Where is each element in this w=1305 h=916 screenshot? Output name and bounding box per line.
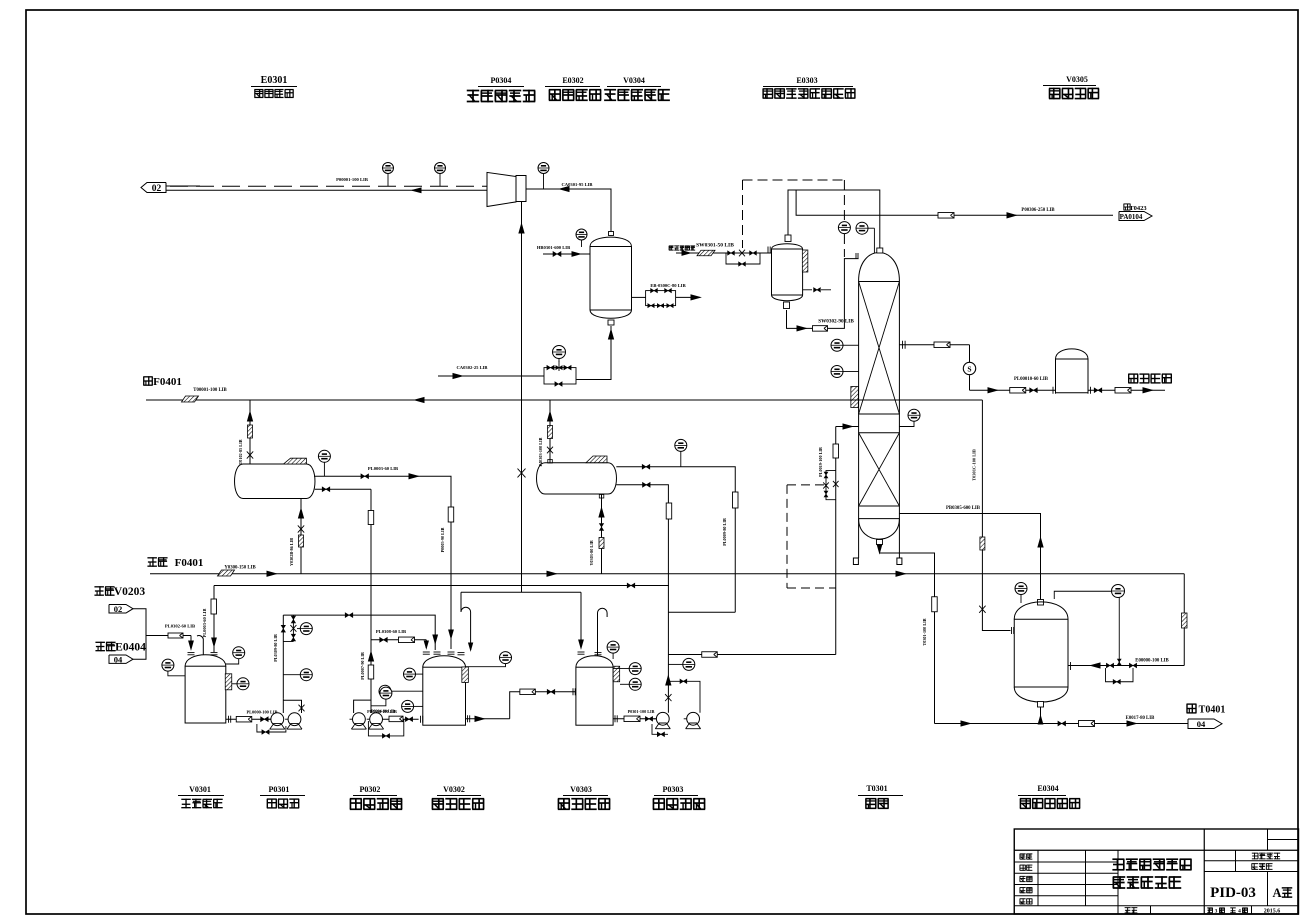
wire overhead offgas line to PA0104 [796,190,1113,215]
wire bus feed header y585.5 [214,585,669,587]
inlet flag 02 来自V0203 [94,586,114,596]
wire bus y400 down to drum1 [249,400,251,464]
pump P0302B [370,713,383,726]
svg-text:V0304: V0304 [623,76,645,85]
instrument PI on V0301 [162,659,174,671]
title block frame [1014,829,1298,914]
wire S down to V0305 line [969,375,971,390]
feed riser twin valve manifold [826,471,836,500]
svg-text:P0304: P0304 [491,76,512,85]
pump P0303B [687,712,700,725]
E0304 control valve station E00000-100 LIB [1068,665,1184,667]
svg-text:A: A [1272,886,1281,900]
instrument FIC bubble [553,346,566,359]
column packing X section lower [859,433,900,506]
wire FIC station outlet up to V0304 bottom nozzle [577,326,612,380]
svg-text:PID-03: PID-03 [1210,885,1256,901]
reboiler E0304 kettle [1038,600,1044,606]
instrument TI on column shell [831,366,843,378]
instrument LT on V0302 [402,700,414,712]
inlet flag 02 from battery limit [141,183,166,193]
wire column overhead vapour line to E0303 [788,190,880,252]
wire drum2 lower right line [616,485,668,713]
vessel V0301 crude anhydride tank [185,655,226,666]
svg-text:E0404: E0404 [115,642,146,654]
wire cooling water supply 自来水 SW0301-50 LIB [676,252,765,254]
svg-text:2015.6: 2015.6 [1264,909,1281,915]
svg-text:PL0000-100 LIB: PL0000-100 LIB [246,710,277,715]
wire vapour return E0304 to column PB0305-600 LIB [899,514,1040,601]
svg-text:Y0303-80 LIB: Y0303-80 LIB [589,540,594,565]
instrument LI on V0301 [237,678,249,690]
wire E0303 left nozzle stub [765,252,772,254]
svg-text:HB0301-600 LIB: HB0301-600 LIB [537,245,570,250]
instrument PI overhead [856,222,868,234]
svg-text:02: 02 [152,184,162,194]
svg-text:PL0309-80 LIB: PL0309-80 LIB [273,634,278,662]
bypass with valve under CW line [726,253,760,264]
wire V0302 outlet right transfer to V0303 [466,718,510,720]
vessel V0302 processor 1 [423,656,466,667]
wire drum2 upper right line [616,467,735,612]
svg-text:02: 02 [114,604,123,614]
instrument TI on V0302 [404,668,416,680]
swan neck vent on V0301 [197,636,203,655]
wire drum1 upper right line PL0003-60 LIB [314,476,451,649]
column top nozzle [877,248,883,253]
inlet flag 04 来自E0404 [95,642,115,652]
wire drum1 bottom drop to bus y574 [300,499,302,574]
svg-text:E0301: E0301 [261,75,288,86]
svg-text:P0301: P0301 [269,785,290,794]
wire ejector suction downcomer [521,202,523,593]
wire P0301 discharge riser to relief header [282,615,284,698]
svg-text:CA0302-25 LIB: CA0302-25 LIB [456,365,487,370]
column support legs [853,558,858,565]
wire P0301 discharge collector [282,698,284,713]
wire bus 去F0401 line y400 [146,399,982,401]
vessel V0304 air buffer tank [609,232,614,236]
hatched strip V0302 [462,667,469,683]
condenser E0303 vertical shell [785,235,791,242]
instrument TIC overhead [838,222,850,234]
pump P0301B [288,713,301,726]
wire flags join to V0301 feed PL0302-60 LIB [133,609,146,636]
pump P0301A [271,713,284,726]
wire V0304 side outlet with valve group EB-0300C-80 LIB [632,296,646,298]
svg-text:PL0003-60 LIB: PL0003-60 LIB [202,608,207,637]
valve on suction downcomer [518,469,526,478]
wire V0305 inlet line PL00010-60 LIB [970,389,1056,391]
title 苯酐生产管道 仪表流程图 [1112,859,1191,871]
svg-text:SW0301-50 LIB: SW0301-50 LIB [696,243,734,249]
svg-text:E0302: E0302 [562,76,583,85]
instrument PI on air line [435,163,446,174]
svg-text:CA0301-95 LIB: CA0301-95 LIB [561,182,592,187]
wire bus 来自F0401 line y574 [150,573,1184,575]
wire drum1 lower right line to riser x371 [315,488,371,490]
svg-text:E0303: E0303 [796,76,817,85]
control station FIC on CA0302-25 LIB to V0304 bottom [438,375,544,377]
svg-text:V0301: V0301 [189,785,211,794]
hatched baffle on E0303 [802,250,808,272]
instrument LT on V0303 [629,678,641,690]
svg-text:T0301: T0301 [866,784,887,793]
svg-text:P0301-100 LIB: P0301-100 LIB [628,709,655,714]
svg-text:PA0104: PA0104 [1120,213,1143,221]
svg-text:T0301-100 LIB: T0301-100 LIB [922,618,927,645]
svg-text:PL00010-60 LIB: PL00010-60 LIB [1014,377,1049,382]
wire drop from header to V0301 right nozzle [213,586,215,653]
ejector P0304 (air jet pump) [487,172,516,206]
svg-text:T0301C-100 LIB: T0301C-100 LIB [972,449,977,481]
svg-text:4: 4 [1238,909,1241,915]
svg-text:T0423: T0423 [1129,205,1147,212]
wire P0302 bypass [368,719,403,736]
instrument PI on E0304 [1015,583,1027,595]
wire P0302 riser into pump1 [354,700,371,713]
wire E0304 bottom drop to 04 line [1040,707,1042,724]
svg-text:3: 3 [1215,909,1218,915]
svg-text:PL0302-60 LIB: PL0302-60 LIB [165,624,195,629]
wire drum2 bottom drop to bus y574 [601,494,603,574]
wire column feed riser x835.75 [835,427,837,655]
wire V0302 outlet left to P0302 [383,718,419,720]
svg-text:V0203: V0203 [114,586,146,598]
wire P0303 discharge riser and loop [667,653,669,713]
drum reflux tank 1 [243,463,307,465]
instrument TI on air line [383,163,394,174]
svg-text:P00306-250 LIB: P00306-250 LIB [1021,208,1055,213]
svg-text:04: 04 [1197,719,1206,729]
svg-text:04: 04 [114,655,123,665]
wire air suction line to ejector (dashed trace) [166,185,200,187]
instrument TI above drum1 [318,450,330,462]
instrument PT at P0302 [380,687,392,699]
outlet flag PA0104 去T0423 [1124,204,1131,211]
wire heating medium from bus y574 to E0304 control valve [1183,574,1185,666]
title block right cells [1235,850,1237,871]
instrument PI at ejector discharge [538,163,549,174]
wire HB0301-600 LIB line into V0304 [543,253,590,255]
wire suction header Pi shape [461,591,581,593]
instrument TIC on E0304 [1112,585,1125,598]
wire V0305 outlet 去处理釜 [1088,389,1165,391]
svg-text:E0017-80 LIB: E0017-80 LIB [1126,716,1155,721]
column bottom dish [859,519,900,540]
wire P0301 bypass [257,724,286,732]
svg-text:T00001-100 LIB: T00001-100 LIB [193,388,227,393]
wire feed line PL0308-60 LIB into V0302 [371,639,426,641]
instrument PI on P0303 riser [683,658,695,670]
E0303 side nozzle with valve [803,289,812,291]
title block signature rows [1014,861,1118,863]
svg-text:PL0019-100 LIB: PL0019-100 LIB [818,447,823,477]
svg-text:PL0009-80 LIB: PL0009-80 LIB [722,518,727,546]
wire feed into column left [836,426,859,428]
column packing X section upper [859,282,900,415]
svg-text:F0401: F0401 [175,557,204,569]
wire ejector discharge to V0304 top [527,189,612,232]
wire E0303 condensate SW0302-90 LIB [787,259,859,329]
svg-text:PL0007-90 LIB: PL0007-90 LIB [360,652,365,680]
column T0301 light tower shell [859,253,900,282]
wire rework line bottom [668,611,735,613]
hatched strip V0303 [613,666,620,682]
wire column reflux/gas side line to S [899,344,969,346]
dashed instrument signal rectangle (TIC loop) [743,179,845,181]
svg-text:P40303-100 LIB: P40303-100 LIB [538,437,543,466]
title block row labels 设计 制图 校核 审核 审定 [1020,854,1033,860]
vessel V0305 light component kettle [1056,349,1089,359]
svg-text:V0305: V0305 [1066,75,1088,84]
E0304 valve bypass [1106,668,1134,682]
svg-text:P0005-90 LIB: P0005-90 LIB [440,527,445,552]
instrument TI on V0303 [629,663,641,675]
svg-text:PL0308-60 LIB: PL0308-60 LIB [376,629,406,634]
relief manifold twin valves [292,615,294,641]
svg-text:Y0302B-86 LIB: Y0302B-86 LIB [289,538,294,566]
instrument TI on V0301 [233,647,245,659]
wire bus y400 down to drum2 [549,400,551,463]
svg-text:P0204-80 LIB: P0204-80 LIB [371,709,395,714]
svg-text:V0303: V0303 [570,785,592,794]
wire V0301 outlet to P0301 suction PL0000-100 LIB [226,718,271,720]
wire relief header to drums and V0302 [283,615,435,650]
instrument TI column lower [908,409,920,421]
svg-text:SW0302-90 LIB: SW0302-90 LIB [818,319,854,325]
wire V0303 outlet right to P0303 suction [613,718,656,720]
svg-text:EB-0300C-80 LIB: EB-0300C-80 LIB [650,283,685,288]
svg-text:PL0003-60 LIB: PL0003-60 LIB [368,466,398,471]
svg-text:P0303: P0303 [663,785,684,794]
svg-text:T0102-85 LIB: T0102-85 LIB [238,439,243,464]
instrument S safety bubble [963,362,975,374]
pump P0303A [656,712,669,725]
svg-text:T0401: T0401 [1199,705,1226,716]
svg-text:E00000-100 LIB: E00000-100 LIB [1135,659,1169,664]
wire P0303 bypass [652,724,668,734]
wire bottoms outlet 04 line [935,723,1189,725]
column feed nozzle hatched [851,387,859,408]
svg-text:S: S [967,365,971,374]
hatched strip V0301 [225,674,232,690]
svg-text:P00001-100 LIB: P00001-100 LIB [336,177,368,182]
instrument TI floating [675,439,687,451]
instrument PI on column shell [831,339,843,351]
dashed level signal line [786,485,788,588]
instrument PSV bubble at manifold [300,623,312,635]
svg-text:PB0305-600 LIB: PB0305-600 LIB [946,506,981,511]
pump P0302A [353,713,366,726]
wire column bottoms line to T0401 [877,540,883,545]
instrument FI at V0304 inlet [576,229,587,240]
svg-text:F0401: F0401 [153,376,182,388]
vessel V0303 processor 2 [576,656,613,667]
instrument PT on V0302 [379,685,391,697]
wire column feed line y653 [668,654,835,656]
swan neck vent near V0303 [598,608,608,656]
instrument PI on V0303 dome [607,641,619,653]
instrument PI on V0302 dome [500,652,512,664]
outlet flag 04 去T0401 [1187,704,1197,714]
drum reflux tank 2 [545,462,608,464]
instrument PI on riser [300,669,312,681]
svg-text:Y0300-150 LIB: Y0300-150 LIB [224,566,256,571]
wire right downcomer from bus y400 to E0304 [982,400,1010,631]
svg-text:E0304: E0304 [1037,784,1058,793]
svg-text:V0302: V0302 [443,785,465,794]
title block bottom row 比例 sheet date [1117,906,1119,914]
svg-text:P0302: P0302 [360,785,381,794]
